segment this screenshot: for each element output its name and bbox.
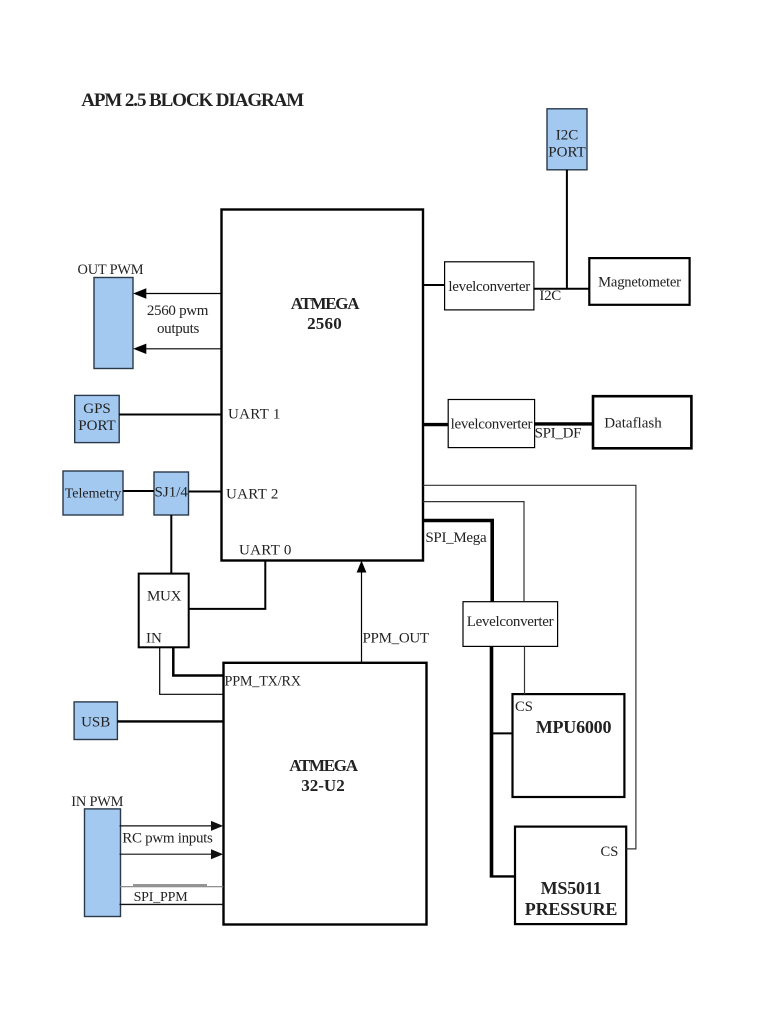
wire MUX to ATMEGA32 PPM_TX/RX (thick) [173, 647, 223, 675]
svg-text:UART 1: UART 1 [228, 406, 281, 422]
svg-text:ATMEGA: ATMEGA [289, 756, 358, 775]
svg-text:Telemetry: Telemetry [65, 487, 122, 502]
wire GPS PORT to UART1 [119, 414, 221, 416]
svg-text:PPM_OUT: PPM_OUT [363, 631, 429, 647]
wire levelconverter to Dataflash SPI_DF (thick) [535, 422, 593, 425]
svg-text:APM 2.5 BLOCK DIAGRAM: APM 2.5 BLOCK DIAGRAM [81, 90, 304, 111]
svg-text:IN: IN [146, 630, 162, 646]
wire OUT PWM arrow 1 (left) [133, 288, 221, 298]
svg-text:PORT: PORT [78, 418, 115, 434]
block MPU6000 [513, 694, 625, 797]
label I2C [539, 288, 561, 304]
block ATMEGA 2560 U1 [222, 210, 424, 561]
svg-text:SPI_PPM: SPI_PPM [134, 890, 189, 905]
wire Telemetry to SJ1/4 [123, 490, 154, 492]
wire PPM_OUT arrow (up) [357, 561, 367, 663]
label IN PWM [71, 794, 123, 810]
svg-text:GPS: GPS [83, 401, 111, 417]
wire CS net to MPU6000 via Levelconverter [423, 502, 525, 694]
wire ATMEGA to levelconverter SPI (thick) [423, 423, 448, 426]
pin label UART 2 [226, 486, 279, 502]
pin label UART 0 [239, 542, 292, 558]
svg-text:UART 2: UART 2 [226, 486, 279, 502]
wire SPI_Mega (thick) to Levelconverter and sensors [423, 521, 515, 878]
svg-text:USB: USB [81, 714, 110, 730]
port USB (blue) [74, 702, 117, 740]
svg-text:UART 0: UART 0 [239, 542, 292, 558]
wire CS net to MS5011 [423, 485, 636, 849]
label SPI_Mega [425, 530, 487, 546]
wire IN PWM arrow 1 (right) [120, 821, 224, 831]
svg-text:Levelconverter: Levelconverter [467, 614, 554, 630]
svg-text:2560 pwm: 2560 pwm [147, 303, 209, 319]
label RC pwm inputs [122, 831, 213, 847]
wire USB to ATMEGA32 [117, 720, 223, 722]
svg-text:OUT PWM: OUT PWM [78, 262, 144, 278]
wire SJ1/4 down to MUX [170, 515, 172, 574]
svg-text:levelconverter: levelconverter [451, 417, 533, 433]
svg-text:SPI_Mega: SPI_Mega [425, 530, 487, 546]
svg-text:IN PWM: IN PWM [71, 794, 123, 810]
jumper SJ1/4 (blue) [154, 472, 189, 515]
svg-text:MS5011: MS5011 [541, 878, 602, 898]
block levelconverter (I2C) [445, 262, 534, 310]
wire SPI_PPM upper (gray) [120, 885, 224, 887]
svg-text:SJ1/4: SJ1/4 [155, 484, 189, 500]
svg-text:I2C: I2C [556, 128, 579, 144]
pin label CS (MPU6000) [515, 699, 533, 715]
svg-text:2560: 2560 [307, 314, 342, 333]
block Dataflash [593, 396, 691, 448]
svg-text:MUX: MUX [147, 588, 182, 604]
pin label UART 1 [228, 406, 281, 422]
svg-text:32-U2: 32-U2 [301, 776, 344, 795]
svg-text:Dataflash: Dataflash [604, 416, 662, 432]
port OUT PWM (blue) [94, 278, 133, 369]
wire SPI_PPM lower [120, 903, 224, 905]
svg-text:I2C: I2C [539, 288, 561, 304]
label OUT PWM [78, 262, 144, 278]
svg-text:PPM_TX/RX: PPM_TX/RX [225, 674, 301, 690]
svg-text:MPU6000: MPU6000 [536, 717, 612, 737]
pin label PPM_TX/RX [225, 674, 301, 690]
block Magnetometer [589, 258, 689, 305]
wire OUT PWM arrow 2 (left) [133, 344, 221, 354]
svg-text:levelconverter: levelconverter [448, 279, 530, 295]
port I2C PORT (blue) [547, 109, 587, 170]
title APM 2.5 BLOCK DIAGRAM [81, 90, 304, 111]
svg-text:CS: CS [601, 844, 619, 860]
wire MUX IN to ATMEGA32 (thin) [160, 647, 224, 694]
block levelconverter (SPI) [448, 400, 534, 448]
block ATMEGA 32-U2 U2 [224, 663, 427, 925]
svg-text:PORT: PORT [548, 145, 585, 161]
wire I2C PORT down to I2C bus [566, 170, 568, 289]
label SPI_PPM [134, 890, 189, 905]
svg-text:ATMEGA: ATMEGA [291, 294, 360, 313]
svg-text:SPI_DF: SPI_DF [535, 426, 582, 442]
wire UART0 to MUX [189, 561, 266, 609]
svg-text:outputs: outputs [157, 321, 200, 337]
svg-text:PRESSURE: PRESSURE [525, 899, 618, 919]
block MS5011 PRESSURE [515, 827, 626, 925]
svg-text:Magnetometer: Magnetometer [598, 275, 681, 291]
wire IN PWM arrow 2 (right) [120, 849, 224, 859]
label PPM_OUT [363, 631, 429, 647]
wire ATMEGA to levelconverter I2C [423, 284, 445, 286]
port Telemetry (blue) [63, 471, 123, 515]
block MUX [139, 574, 189, 648]
label 2560 pwm outputs [147, 303, 209, 337]
wire SJ1/4 to UART2 [189, 491, 222, 493]
pin label CS (MS5011) [601, 844, 619, 860]
svg-text:CS: CS [515, 699, 533, 715]
block Levelconverter (SPI mega) [463, 602, 558, 647]
port IN PWM (blue) [85, 809, 121, 917]
label SPI_DF [535, 426, 582, 442]
port GPS PORT (blue) [75, 395, 120, 442]
svg-text:RC pwm inputs: RC pwm inputs [122, 831, 213, 847]
wire levelconverter to Magnetometer (I2C bus) [534, 288, 589, 290]
